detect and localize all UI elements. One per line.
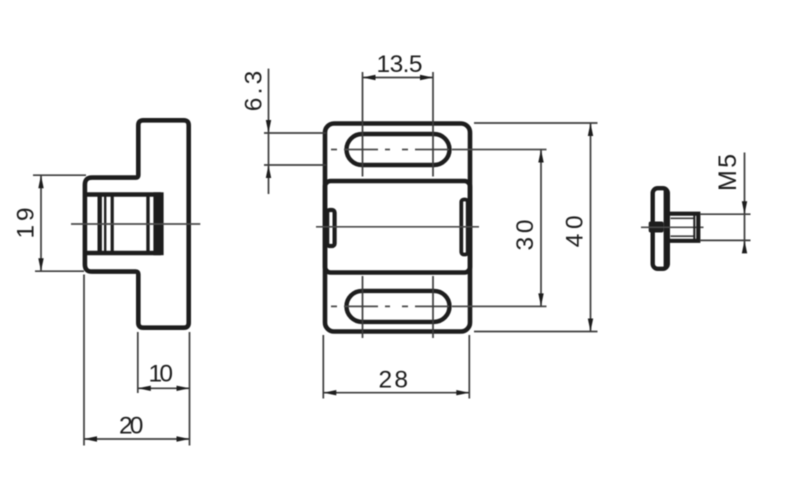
front view: bottom slot: [347, 291, 450, 322]
svg-text:28: 28: [379, 367, 409, 394]
dimension 10: left arrowhead: [138, 386, 151, 391]
dimension 30: dimension line: [540, 150, 542, 307]
dimension 19: top extension line: [33, 174, 86, 176]
dimension 28: right arrowhead: [456, 390, 469, 395]
dimension 20: left extension line: [83, 275, 85, 446]
screw view: thread minor line upper: [671, 217, 694, 219]
screw view: drive slot block: [649, 222, 664, 233]
dimension 10: left extension line: [137, 332, 139, 393]
svg-text:20: 20: [119, 413, 144, 440]
svg-text:10: 10: [149, 360, 174, 387]
front view: bottom slot centre line (dash-dot): [331, 305, 452, 307]
left view: pole plate line B: [104, 195, 106, 254]
left view: magnet pocket top edge: [85, 192, 161, 196]
front view: top slot: [347, 134, 450, 165]
dimension 10: dimension line: [138, 387, 190, 389]
dimension 28: left extension line: [322, 335, 324, 399]
front view: top slot centre line extension to 30-dim: [452, 149, 547, 151]
screw view: thread minor line lower: [671, 235, 694, 237]
dimension 6.3: dimension line with tails: [268, 69, 270, 194]
screw view: centre line: [641, 226, 704, 228]
left view: horizontal centre line: [71, 223, 200, 225]
dimension 19: bottom extension line: [35, 270, 84, 272]
dimension 13.5: right arrowhead: [420, 75, 433, 80]
svg-text:M5: M5: [714, 154, 742, 191]
dimension 30: lower arrowhead: [538, 293, 543, 306]
front view: slot tangent line right lower: [432, 276, 434, 338]
front view: slot tangent line left upper: [362, 72, 364, 177]
dimension 20: left arrowhead: [84, 436, 97, 441]
dimension M5: upper arrowhead (outside, pointing down): [742, 201, 747, 214]
left view: magnet pocket bottom edge: [85, 251, 161, 255]
screw view: head inner line: [664, 190, 666, 267]
dimension 28: left arrowhead: [323, 390, 336, 395]
dimension 20: dimension line: [84, 438, 190, 440]
dimension 20: right arrowhead: [177, 436, 190, 441]
dimension 19: upper arrowhead: [38, 175, 43, 188]
dimension M5: lower arrowhead (outside, pointing up): [742, 240, 747, 253]
front view: slot tangent line left lower: [362, 276, 364, 338]
dimension 28: dimension line: [323, 392, 469, 394]
svg-text:30: 30: [512, 220, 539, 251]
svg-text:40: 40: [562, 215, 589, 247]
dimension 40: lower extension line: [474, 331, 598, 333]
front view: slot tangent line right upper: [432, 72, 434, 177]
left view: magnet left edge line C: [111, 195, 114, 254]
front view: horizontal centre line: [316, 226, 479, 228]
dimension 19: dimension line: [40, 175, 42, 271]
front view: middle section outline: [325, 181, 470, 273]
front view: top slot centre line (dash-dot): [331, 149, 452, 151]
left view: side profile outline: [85, 120, 189, 327]
left view: magnet pocket right end band: [153, 192, 163, 255]
screw view: threaded stud outline: [670, 214, 698, 241]
dimension M5: dimension line: [744, 153, 746, 254]
dimension 10: right arrowhead: [177, 386, 190, 391]
dimension 40: upper arrowhead: [588, 123, 593, 136]
front view: left tab: [327, 210, 334, 246]
dimension 28: right extension line: [468, 335, 470, 399]
dimension 13.5: left arrowhead: [363, 75, 376, 80]
front view: bottom slot centre line extension to 30-dim: [452, 305, 547, 307]
left view: pole plate line A: [97, 195, 101, 254]
screw view: stud chamfer line: [693, 213, 695, 243]
dimension 13.5: dimension line: [363, 77, 434, 79]
front view: plate outline: [325, 124, 470, 332]
dimension 40: upper extension line: [474, 122, 598, 124]
dimension 30: upper arrowhead: [538, 150, 543, 163]
dimension M5: lower extension line: [701, 239, 751, 241]
dimension 6.3: upper extension line: [264, 132, 326, 134]
dimension 40: dimension line: [590, 123, 592, 332]
dimension 6.3: lower extension line: [264, 164, 326, 166]
dimension M5: upper extension line: [701, 213, 751, 215]
dimension 40: lower arrowhead: [588, 319, 593, 332]
dimension 19: lower arrowhead: [38, 258, 43, 271]
screw view: head outline: [653, 188, 668, 269]
dimension 6.3: upper arrowhead (outside, pointing down): [266, 120, 271, 133]
dimension 10: right extension line: [189, 332, 191, 446]
svg-text:19: 19: [13, 208, 40, 239]
front view: right tab: [461, 200, 467, 255]
left view: magnet right edge line D: [146, 195, 149, 254]
svg-text:13.5: 13.5: [377, 51, 423, 78]
dimension 6.3: lower arrowhead (outside, pointing up): [266, 165, 271, 178]
svg-text:6.3: 6.3: [241, 71, 268, 112]
